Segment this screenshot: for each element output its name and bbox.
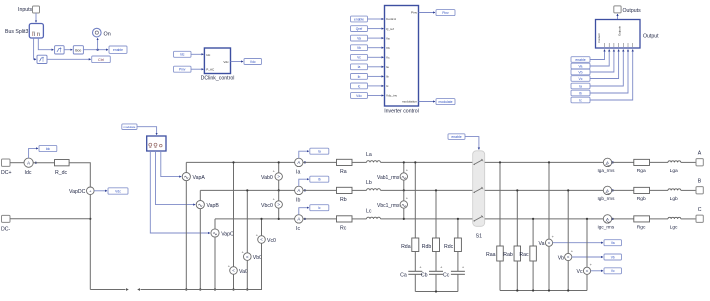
from tag Idc <box>174 51 192 57</box>
controlled source block <box>147 136 166 151</box>
goto tag Pinv <box>436 10 455 16</box>
wire Cb to star point <box>435 274 437 291</box>
port C <box>696 207 703 223</box>
svg-text:Va: Va <box>357 37 361 41</box>
wire VapDC measurement <box>94 190 107 192</box>
from tag Vc (inverter control input) <box>351 54 368 60</box>
wire Vb to inverter control <box>368 47 384 49</box>
goto tag Va <box>604 240 622 246</box>
svg-text:Rc: Rc <box>340 225 347 231</box>
wire Vbc1_rms bottom <box>403 208 405 219</box>
wire Qref to inverter control <box>368 28 384 30</box>
inductor La <box>366 152 381 163</box>
resistor Rga <box>634 159 650 174</box>
svg-text:Vbc0: Vbc0 <box>261 203 273 209</box>
damping branch Rdc/Cc <box>457 219 459 238</box>
svg-text:<: < <box>586 269 589 274</box>
from tag Vb (inverter control input) <box>351 45 368 51</box>
voltmeter Va <box>539 234 555 247</box>
svg-text:Lb: Lb <box>366 180 372 186</box>
wire Vb0 to neutral rail <box>246 260 248 289</box>
junction at rail <box>548 161 550 163</box>
ammeter Ic <box>295 215 303 232</box>
svg-text:Vab1_rms: Vab1_rms <box>377 175 400 181</box>
svg-text:C: C <box>698 207 702 213</box>
ammeter Igb_rms <box>598 186 616 201</box>
svg-text:Bus Split3: Bus Split3 <box>5 29 28 35</box>
svg-text:Rdb: Rdb <box>422 244 432 250</box>
junction at rail <box>586 218 588 220</box>
svg-text:Boo: Boo <box>75 48 81 52</box>
wire Raa to ground rail <box>499 261 501 291</box>
svg-text:modulation: modulation <box>402 100 417 104</box>
svg-text:Rac: Rac <box>519 252 529 258</box>
svg-text:A: A <box>27 160 30 165</box>
svg-text:Ra: Ra <box>340 169 347 175</box>
svg-text:Vc: Vc <box>611 269 615 273</box>
svg-text:+: + <box>242 249 245 254</box>
svg-text:Connect: Connect <box>597 33 601 43</box>
junction at rail <box>246 189 248 191</box>
voltmeter Vbc0 <box>261 197 282 210</box>
junction <box>246 288 248 290</box>
svg-text:VapDC: VapDC <box>69 189 86 195</box>
wire Va to inverter control <box>368 37 384 39</box>
junction <box>516 289 518 291</box>
svg-text:VapA: VapA <box>193 175 206 181</box>
wire right ground rail <box>500 290 587 292</box>
wire Ic to Output block <box>590 50 633 101</box>
wire Ib measurement <box>299 179 309 186</box>
wire Va0 to phase rail <box>233 162 235 266</box>
svg-text:+: + <box>552 234 555 239</box>
inductor Lgc <box>668 217 681 230</box>
svg-text:Ic: Ic <box>318 206 321 210</box>
svg-text:Va: Va <box>611 241 615 245</box>
junction <box>278 189 280 191</box>
svg-text:Lc: Lc <box>366 208 372 214</box>
svg-text:Vc: Vc <box>357 56 361 60</box>
wire Vc measurement <box>591 270 603 272</box>
from tag Ic (output bus input) <box>571 97 590 103</box>
junction <box>548 289 550 291</box>
wire Ic to inverter control <box>368 85 384 87</box>
wire Vc0 to neutral rail <box>261 243 263 289</box>
goto tag Vc <box>604 268 622 274</box>
wire Pinv output <box>419 12 436 14</box>
svg-text:Ic: Ic <box>579 98 582 102</box>
svg-text:Control: Control <box>386 17 396 21</box>
svg-text:Vab0: Vab0 <box>261 175 273 181</box>
svg-text:Vc: Vc <box>386 56 390 60</box>
svg-text:P_AC: P_AC <box>206 68 215 72</box>
ammeter Iga_rms <box>598 158 616 173</box>
goto tag Ib <box>310 176 329 182</box>
capacitor Cc <box>443 265 465 279</box>
wire Vc0 to phase rail <box>261 219 263 236</box>
svg-text:Ia: Ia <box>296 169 300 175</box>
wire junction to On lamp <box>97 38 99 50</box>
svg-text:enable: enable <box>575 58 585 62</box>
from tag Ia (output bus input) <box>571 83 590 89</box>
svg-text:+: + <box>440 265 443 270</box>
resistor Rdb <box>422 238 440 252</box>
wire Output block to Outputs <box>617 14 619 20</box>
wire Va to Output block <box>590 50 609 67</box>
svg-text:Rgc: Rgc <box>637 225 646 231</box>
svg-text:DC-: DC- <box>1 227 10 233</box>
goto tag Vdc <box>244 59 262 65</box>
junction <box>612 189 614 191</box>
svg-text:Output: Output <box>643 34 659 40</box>
wire phase C rail right <box>485 218 604 220</box>
wire Iga_rms to Rga <box>612 161 634 163</box>
svg-text:Va: Va <box>386 36 390 40</box>
svg-text:Igc_rms: Igc_rms <box>598 225 615 230</box>
junction <box>403 189 405 191</box>
wire Lga to port A <box>681 161 696 163</box>
wire Rda to Ca <box>414 252 416 272</box>
goto tag enable <box>109 46 127 53</box>
svg-text:Vb: Vb <box>357 46 361 50</box>
wire source block to VapA <box>161 151 181 177</box>
from tag Va (inverter control input) <box>351 35 368 41</box>
wire VapC to neutral rail <box>214 237 216 289</box>
svg-text:modulate: modulate <box>439 100 453 104</box>
from tag enable (output bus input) <box>571 57 590 63</box>
resistor Rda <box>401 238 419 252</box>
svg-text:Rab: Rab <box>503 252 513 258</box>
svg-text:<: < <box>567 255 570 260</box>
subsystem Output bus <box>596 20 660 49</box>
wire Vc to Output block <box>590 50 619 79</box>
inductor Lb <box>366 180 381 191</box>
resistor Raa <box>486 246 503 261</box>
ammeter Ia <box>295 158 303 175</box>
wire source block to VapC <box>150 151 210 233</box>
resistor R_dc <box>55 160 70 176</box>
inductor Lgb <box>668 189 681 202</box>
wire Rgc to Lgc <box>650 218 669 220</box>
wire Vbc1_rms top <box>403 190 405 200</box>
junction <box>304 189 306 191</box>
svg-text:DClink_control: DClink_control <box>201 75 235 81</box>
damping branch Rda/Ca <box>414 162 416 238</box>
voltmeter Vb0 <box>242 249 263 261</box>
svg-text:Igb_rms: Igb_rms <box>598 196 616 201</box>
wire Ia to resistor <box>303 161 337 163</box>
svg-text:+: + <box>228 263 231 268</box>
junction <box>278 161 280 163</box>
voltmeter Vc0 <box>256 232 276 244</box>
svg-text:Iga_rms: Iga_rms <box>598 168 616 173</box>
svg-text:Va0: Va0 <box>239 269 248 275</box>
wire La to breaker <box>381 161 473 163</box>
wire Idc measurement <box>29 148 38 158</box>
junction <box>304 161 306 163</box>
resistor Rac <box>519 246 536 261</box>
svg-text:enable: enable <box>354 17 364 21</box>
lamp On <box>93 28 111 37</box>
svg-text:Lgb: Lgb <box>670 196 678 202</box>
wire Bus Split3 out1 <box>38 38 53 50</box>
ammeter Ib <box>295 186 303 203</box>
junction at rail <box>457 218 459 220</box>
svg-text:+: + <box>462 265 465 270</box>
svg-text:Va: Va <box>539 241 545 247</box>
junction at rail <box>260 218 262 220</box>
wire Ia to inverter control <box>368 66 384 68</box>
svg-text:DC+: DC+ <box>1 170 12 176</box>
wire Vdc to inverter control <box>368 95 384 97</box>
svg-text:Vdc: Vdc <box>115 189 121 193</box>
wire Pinv to DClink_control <box>191 68 203 70</box>
wire left neutral rail segment 1 <box>90 288 129 291</box>
wire left neutral rail segment 2 <box>137 243 261 291</box>
svg-text:Pinv: Pinv <box>179 68 186 72</box>
svg-text:Ca: Ca <box>400 272 407 278</box>
svg-text:Idc: Idc <box>46 147 51 151</box>
svg-text:Lga: Lga <box>670 168 678 174</box>
load branch Raa <box>499 162 501 246</box>
wire Vab1_rms top <box>403 162 405 172</box>
junction <box>304 218 306 220</box>
wire DC+ to Idc ammeter <box>10 162 24 164</box>
svg-text:Vbc1_rms: Vbc1_rms <box>377 203 400 209</box>
junction <box>97 49 99 51</box>
inport Inputs <box>18 6 40 13</box>
wire phase A rail <box>186 161 294 163</box>
wire Ia to Output block <box>590 50 623 87</box>
wire Vbc0 bottom <box>278 208 280 219</box>
converter block 2 <box>37 55 47 63</box>
svg-text:enable: enable <box>451 135 461 139</box>
svg-text:Vc: Vc <box>577 269 583 275</box>
wire Va to ground rail <box>548 246 550 290</box>
svg-text:Vdc: Vdc <box>250 60 256 64</box>
wire converter1 to Boolean <box>64 49 72 51</box>
svg-text:modulate: modulate <box>123 125 135 129</box>
wire Lgc to port C <box>681 218 696 220</box>
voltmeter Vbc1_rms <box>377 196 409 210</box>
svg-text:Ia: Ia <box>386 65 389 69</box>
Boolean conversion block <box>73 46 83 54</box>
svg-text:On: On <box>104 31 111 37</box>
resistor Rc <box>337 216 353 232</box>
wire Vbc0 top <box>278 190 280 200</box>
wire Bus Split3 out2 <box>34 38 36 59</box>
wire Va to phase rail <box>548 162 550 239</box>
wire enable to inverter control <box>368 18 384 20</box>
svg-text:>: > <box>277 202 280 207</box>
svg-text:Vb: Vb <box>611 255 615 259</box>
svg-text:Ib: Ib <box>579 91 582 95</box>
junction at rail <box>532 218 534 220</box>
svg-text:Ia: Ia <box>318 150 321 154</box>
svg-text:+: + <box>406 196 409 201</box>
wire modulate to source block <box>137 127 157 135</box>
goto tag Ia <box>310 148 329 154</box>
svg-text:<: < <box>246 254 249 259</box>
wire VapB to neutral rail <box>199 209 201 290</box>
svg-text:Rga: Rga <box>637 168 646 174</box>
junction <box>532 289 534 291</box>
wire DClink_control to Vdc tag <box>231 61 244 63</box>
junction <box>403 218 405 220</box>
resistor Rgb <box>634 187 650 202</box>
resistor Ra <box>337 159 353 175</box>
converter block 1 <box>55 46 65 54</box>
junction at rail <box>232 161 234 163</box>
goto tag Idc <box>39 145 57 151</box>
junction at rail <box>516 189 518 191</box>
wire source block to VapB <box>156 151 196 205</box>
wire Rb to Lb <box>352 189 367 191</box>
svg-text:Pinv: Pinv <box>411 11 417 15</box>
svg-text:+: + <box>273 169 276 174</box>
capacitor Ca <box>400 265 422 279</box>
wire capacitor star point <box>415 291 458 293</box>
svg-text:+: + <box>256 232 259 237</box>
svg-text:Qref: Qref <box>356 27 362 31</box>
wire Ib to resistor <box>303 189 337 191</box>
inductor Lc <box>366 208 381 219</box>
voltmeter Vc <box>577 262 593 275</box>
wire Va measurement <box>553 242 603 244</box>
wire Inputs to Bus Split3 <box>35 13 37 22</box>
junction DC- node <box>89 218 91 220</box>
wire Vb to ground rail <box>567 261 569 291</box>
svg-text:Ib: Ib <box>318 178 321 182</box>
wire Cc to star point <box>457 274 459 291</box>
svg-text:R_dc: R_dc <box>55 170 68 176</box>
svg-text:Idc: Idc <box>206 53 211 57</box>
svg-text:+: + <box>406 168 409 173</box>
wire Vb measurement <box>572 256 603 258</box>
goto tag Vdc (measured) <box>108 188 128 194</box>
svg-text:A: A <box>297 217 300 222</box>
junction at rail <box>414 161 416 163</box>
wire Idc to DClink_control <box>191 53 203 55</box>
wire Ra to La <box>352 161 367 163</box>
controlled voltage source VapB <box>196 201 219 210</box>
wire Vab0 top <box>278 162 280 172</box>
wire Igc_rms to Rgc <box>612 218 634 220</box>
wire enable to breaker <box>465 137 479 150</box>
voltmeter Vb <box>558 248 574 261</box>
svg-text:Lgc: Lgc <box>670 225 678 231</box>
from tag Qref (inverter control input) <box>351 26 368 32</box>
wire Rdb to Cb <box>435 252 437 272</box>
junction <box>199 288 201 290</box>
wire VapA to neutral rail <box>185 181 187 290</box>
svg-text:Pinv: Pinv <box>442 11 449 15</box>
svg-text:Ib: Ib <box>358 75 361 79</box>
from tag modulate <box>122 124 137 130</box>
wire Ic measurement <box>299 208 309 215</box>
svg-text:Rgb: Rgb <box>637 196 646 202</box>
svg-text:Vc0: Vc0 <box>267 238 276 244</box>
svg-text:<: < <box>260 237 263 242</box>
svg-text:Ic: Ic <box>296 226 300 232</box>
wire Vc to inverter control <box>368 56 384 58</box>
from tag Ic (inverter control input) <box>351 83 368 89</box>
svg-text:Inputs: Inputs <box>18 7 33 13</box>
svg-text:Vc: Vc <box>579 77 583 81</box>
svg-text:Vdc_inv: Vdc_inv <box>386 94 397 98</box>
wire Ca to star point <box>414 274 416 291</box>
ammeter Idc <box>24 158 33 176</box>
from tag enable (inverter control input) <box>351 16 368 22</box>
port DC- <box>1 215 10 232</box>
wire phase C rail <box>215 218 295 220</box>
wire phase B rail <box>200 189 294 191</box>
svg-text:enable: enable <box>113 48 123 52</box>
svg-text:Ia: Ia <box>579 84 582 88</box>
from tag enable (breaker control) <box>448 134 465 140</box>
wire modulation output <box>419 101 436 103</box>
wire Rac to ground rail <box>532 261 534 291</box>
junction <box>214 288 216 290</box>
svg-text:Vdc: Vdc <box>356 94 362 98</box>
voltmeter Vab0 <box>261 169 282 182</box>
junction <box>612 218 614 220</box>
wire Lc to breaker <box>381 218 473 220</box>
svg-text:Vdc: Vdc <box>223 60 229 64</box>
svg-text:Ia: Ia <box>358 65 361 69</box>
subsystem DClink_control <box>201 48 235 81</box>
wire VapA to phase rail <box>185 162 187 172</box>
voltmeter Vab1_rms <box>377 168 409 182</box>
port A <box>696 150 703 166</box>
svg-text:Idc: Idc <box>180 53 185 57</box>
port B <box>696 178 703 194</box>
wire Vb0 to phase rail <box>246 190 248 252</box>
outport Outputs <box>614 6 641 14</box>
capacitor Cb <box>421 265 443 279</box>
svg-text:Vb: Vb <box>558 255 564 261</box>
svg-text:B: B <box>698 178 702 184</box>
svg-text:Ic: Ic <box>358 84 361 88</box>
from tag Ia (inverter control input) <box>351 64 368 70</box>
from tag Vc (output bus input) <box>571 76 590 82</box>
svg-text:Q_ref: Q_ref <box>386 27 394 31</box>
wire Lb to breaker <box>381 189 473 191</box>
wire VapC to phase rail <box>214 219 216 229</box>
damping branch Rdb/Cb <box>435 190 437 238</box>
junction <box>35 162 37 164</box>
wire Ib to inverter control <box>368 75 384 77</box>
voltmeter Va0 <box>228 263 248 275</box>
goto tag Ic <box>310 205 329 211</box>
wire Rga to Lga <box>650 161 669 163</box>
svg-text:Raa: Raa <box>486 252 496 258</box>
load branch Rab <box>516 190 518 246</box>
svg-text:Rdc: Rdc <box>444 244 454 250</box>
junction <box>567 289 569 291</box>
load branch Rac <box>532 219 534 246</box>
wire Vc to phase rail <box>586 219 588 267</box>
junction at rail <box>435 189 437 191</box>
svg-text:Vb: Vb <box>386 46 390 50</box>
svg-text:Rb: Rb <box>340 197 347 203</box>
resistor Rab <box>503 246 520 261</box>
svg-text:+: + <box>273 197 276 202</box>
svg-text:Rda: Rda <box>401 244 411 250</box>
block Bus Split3 <box>5 24 43 39</box>
wire Igb_rms to Rgb <box>612 189 634 191</box>
junction <box>435 290 437 292</box>
